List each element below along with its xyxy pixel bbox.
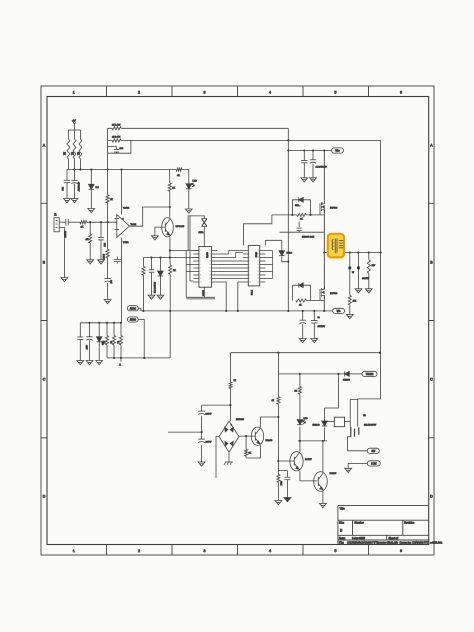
ground R9 bbox=[87, 260, 94, 264]
IC U2 left pins bbox=[193, 251, 199, 283]
diode D6 snubber lower bbox=[292, 285, 310, 300]
wire R19 drop bbox=[368, 253, 370, 289]
wire Q5 base bbox=[278, 460, 294, 462]
svg-text:Date:: Date: bbox=[339, 536, 345, 540]
capacitor C10 bbox=[301, 160, 307, 162]
op-amp U1 bbox=[115, 215, 130, 238]
svg-text:COM: COM bbox=[371, 464, 376, 466]
resistor R22 1K bbox=[298, 387, 301, 395]
wire collector column bbox=[169, 170, 171, 218]
ground LED1 bbox=[185, 209, 192, 213]
diode LED3 bbox=[297, 420, 303, 425]
sheet outer border frame bbox=[41, 86, 434, 555]
capacitor C12 bbox=[297, 228, 302, 230]
wire U2-U3 jog upper bbox=[217, 251, 243, 258]
wire Q5 collector bbox=[299, 441, 301, 452]
junction VB-Q2 bbox=[323, 149, 325, 151]
resistor R12 bbox=[142, 267, 145, 276]
ground LED2 bbox=[96, 361, 103, 365]
wire U3 hat bbox=[244, 215, 272, 246]
resistor R3 2K bbox=[79, 139, 82, 159]
junction rail-opamp bbox=[120, 168, 122, 170]
svg-text:9: 9 bbox=[200, 278, 201, 280]
diode D3 4007 bbox=[86, 337, 92, 340]
svg-text:a-b15.Sch: a-b15.Sch bbox=[430, 541, 443, 545]
resistor R21 4K bbox=[277, 397, 280, 405]
svg-text:18: 18 bbox=[257, 257, 259, 259]
resistor R25 body bbox=[277, 475, 280, 483]
wire U2-U3 links bbox=[217, 261, 243, 279]
svg-text:1: 1 bbox=[322, 203, 323, 205]
transistor Q2 IRF730 symbol bbox=[320, 201, 325, 213]
svg-text:Drawn by: CHARGE-777: Drawn by: CHARGE-777 bbox=[400, 541, 430, 545]
wire zener branch bbox=[325, 374, 339, 441]
svg-text:15: 15 bbox=[257, 268, 259, 270]
diode LED2 bbox=[96, 337, 102, 342]
wire C10 drop bbox=[303, 151, 305, 178]
transistor Q3 IRF730 symbol bbox=[320, 286, 325, 298]
junction W1-W2col bbox=[277, 352, 279, 354]
wire Q2 gate stub bbox=[319, 210, 321, 215]
capacitor C8 bbox=[149, 270, 155, 272]
wire relay left pin bbox=[325, 421, 335, 423]
border column tick marks bbox=[107, 86, 369, 555]
junction rail-fb bbox=[107, 168, 109, 170]
svg-text:8: 8 bbox=[200, 275, 201, 277]
svg-text:2K: 2K bbox=[71, 152, 74, 155]
diode D6 body bbox=[299, 283, 303, 288]
svg-text:6: 6 bbox=[200, 268, 201, 270]
svg-text:2: 2 bbox=[138, 90, 140, 94]
junction rail-zener bbox=[90, 168, 92, 170]
wire R10 bias column bbox=[107, 222, 109, 299]
svg-text:13: 13 bbox=[257, 275, 259, 277]
diode D9 zener bbox=[322, 421, 328, 426]
wire Q4 collector bbox=[261, 417, 279, 427]
wire bus drop x226 bbox=[217, 282, 226, 311]
ground C1 bbox=[64, 199, 71, 203]
capacitor C16 bbox=[278, 471, 287, 498]
wire W0 bottom row bbox=[144, 310, 333, 312]
resistor R18 47K bbox=[348, 296, 351, 305]
svg-text:2W005G: 2W005G bbox=[236, 419, 244, 421]
wire resistor bottoms row bbox=[107, 357, 170, 359]
svg-text:CD4B: CD4B bbox=[255, 252, 257, 258]
ground D2 bbox=[157, 295, 164, 299]
svg-text:1N4...: 1N4... bbox=[295, 205, 301, 207]
svg-text:6: 6 bbox=[400, 90, 402, 94]
svg-text:4700/25V: 4700/25V bbox=[77, 182, 79, 192]
ground C16 filled bbox=[284, 498, 291, 502]
connector J1 audio input bbox=[54, 214, 59, 232]
wire R22 LED column bbox=[299, 374, 301, 441]
wire R18 drop bbox=[349, 253, 351, 315]
wire C13 drop bbox=[302, 311, 304, 339]
wire C11 drop bbox=[312, 151, 314, 178]
svg-text:RELAY-SPDT: RELAY-SPDT bbox=[364, 424, 377, 427]
junction input-C5 bbox=[100, 221, 102, 223]
svg-text:19: 19 bbox=[209, 254, 211, 256]
junction HV-fb bbox=[287, 139, 289, 141]
junction input-R10 bbox=[107, 221, 109, 223]
svg-text:220PF: 220PF bbox=[206, 414, 213, 416]
node A stub bbox=[120, 358, 122, 362]
crystal X1 bbox=[202, 219, 208, 227]
svg-text:BC547: BC547 bbox=[305, 459, 312, 461]
svg-text:16: 16 bbox=[257, 264, 259, 266]
ground Q6 bbox=[320, 503, 327, 507]
svg-text:2: 2 bbox=[249, 254, 250, 256]
junction RC-C8 bbox=[150, 256, 152, 258]
diode D5 body bbox=[299, 197, 303, 202]
resistor R7 1K bbox=[168, 183, 171, 191]
IC U2 bbox=[199, 247, 212, 288]
transistor Q5 ellipse bbox=[290, 452, 303, 471]
svg-text:File:: File: bbox=[339, 540, 344, 544]
bridge rectifier BR1 bbox=[219, 421, 239, 452]
wire bridge left bbox=[216, 437, 219, 478]
svg-text:5: 5 bbox=[249, 264, 250, 266]
wire R13 stubs bbox=[106, 323, 108, 358]
svg-text:REL3: REL3 bbox=[287, 253, 293, 255]
svg-text:W: W bbox=[352, 272, 354, 274]
svg-text:4: 4 bbox=[200, 261, 201, 263]
resistor R2 2K bbox=[73, 139, 76, 159]
resistor R23 body bbox=[245, 449, 248, 456]
svg-text:17: 17 bbox=[209, 261, 211, 263]
power net +V symbol bbox=[72, 119, 76, 131]
ground J1 bbox=[61, 278, 68, 282]
wire bridge bottom bbox=[228, 452, 230, 462]
ground R18 bbox=[346, 315, 353, 319]
wire Q5 emitter to Q6 base bbox=[300, 471, 318, 481]
wire U2 bottom stub bbox=[203, 287, 205, 297]
net label DC12V bbox=[362, 371, 377, 376]
border row letters bbox=[43, 144, 434, 499]
svg-text:5: 5 bbox=[335, 549, 337, 553]
svg-text:C: C bbox=[430, 378, 433, 382]
transformer T1 highlight bbox=[328, 234, 344, 258]
sheet inner border frame bbox=[47, 97, 429, 545]
LED3 arrows bbox=[302, 420, 306, 424]
junction VB-C11 bbox=[312, 149, 314, 151]
wire U2 left bus1 bbox=[190, 216, 193, 281]
net label AUDIO2 bbox=[127, 317, 138, 322]
svg-text:20: 20 bbox=[209, 250, 211, 252]
svg-text:C:\USERS\CHARGE-777\lnverter-1: C:\USERS\CHARGE-777\lnverter-15v2.ddb bbox=[347, 541, 399, 545]
transistor Q3 MOSFET lower bbox=[323, 253, 325, 311]
resistor R14 bbox=[112, 336, 115, 345]
capacitor C16 bbox=[284, 477, 290, 479]
title block bbox=[338, 506, 443, 545]
junction rail-fbcol bbox=[380, 251, 382, 253]
junction emitter-W0 bbox=[169, 310, 171, 312]
svg-text:6: 6 bbox=[249, 268, 250, 270]
ground R25 bbox=[275, 501, 282, 505]
ground D3 bbox=[86, 361, 93, 365]
junction collector-opamp out bbox=[169, 206, 171, 208]
net label AUDIO1 bbox=[127, 306, 138, 311]
capacitor C18 220PF bbox=[198, 439, 205, 442]
svg-text:14: 14 bbox=[209, 271, 211, 273]
svg-text:BD140: BD140 bbox=[266, 440, 273, 442]
wire J1 pin1 bbox=[59, 221, 66, 223]
wire W3 row bbox=[298, 440, 327, 442]
svg-text:9: 9 bbox=[249, 278, 250, 280]
capacitor C1 104 bbox=[64, 180, 70, 182]
diode D7 body bbox=[345, 371, 350, 376]
wire Q2 source to transformer rail bbox=[324, 252, 380, 254]
wire contact to SW bubble bbox=[348, 437, 368, 451]
wire fb top long bbox=[108, 127, 289, 129]
wire left block top bbox=[80, 322, 121, 324]
wire opamp V- pin column bbox=[121, 238, 123, 323]
svg-text:120K: 120K bbox=[102, 254, 104, 260]
IC U3 bbox=[248, 245, 259, 286]
svg-text:2K2A: 2K2A bbox=[199, 231, 205, 234]
junction bridge-cap bbox=[229, 404, 231, 406]
resistor R10 120K bbox=[106, 249, 109, 257]
svg-text:AUD1: AUD1 bbox=[130, 307, 137, 310]
junction rail-R2 bbox=[73, 168, 75, 170]
svg-text:4: 4 bbox=[269, 549, 271, 553]
wire Q3 gate stub bbox=[319, 296, 321, 301]
svg-text:1: 1 bbox=[249, 250, 250, 252]
svg-text:D: D bbox=[430, 495, 433, 499]
svg-text:TL062: TL062 bbox=[131, 224, 138, 226]
wire D2 drop bbox=[159, 258, 161, 296]
ground C15 bbox=[355, 289, 362, 293]
wire opamp V+ pin bbox=[121, 170, 123, 215]
resistor R24 bias upper bbox=[107, 170, 109, 223]
relay RL1 bbox=[334, 417, 344, 427]
svg-text:IRF730: IRF730 bbox=[330, 293, 338, 295]
svg-text:Sheet of: Sheet of bbox=[389, 536, 399, 540]
resistor R23 8K bbox=[245, 436, 247, 458]
net label SW bbox=[367, 448, 379, 453]
capacitor C3 plates bbox=[114, 150, 119, 152]
chassis ground bridge bbox=[224, 462, 233, 465]
ground C2 bbox=[71, 199, 78, 203]
wire opamp out bbox=[129, 207, 169, 226]
resistor R11 1K bbox=[169, 265, 172, 274]
svg-text:9-Apr-2010: 9-Apr-2010 bbox=[352, 536, 366, 540]
wire +V top bar bbox=[69, 129, 81, 131]
wire LED branch bbox=[188, 170, 190, 210]
wire C5 drop bbox=[100, 222, 102, 260]
svg-text:16: 16 bbox=[209, 264, 211, 266]
svg-text:10: 10 bbox=[249, 282, 251, 284]
svg-text:3: 3 bbox=[249, 257, 250, 259]
border row tick marks bbox=[41, 203, 434, 437]
wire Q6 collector bbox=[322, 441, 324, 472]
wire R9 drop bbox=[89, 222, 91, 260]
ground C10 bbox=[301, 178, 308, 182]
capacitor C2 4700uF/25V bbox=[71, 180, 77, 183]
IC U3 left pins bbox=[243, 251, 249, 283]
net label VB+ bbox=[332, 148, 344, 153]
junction R21-Q4col bbox=[277, 416, 279, 418]
resistor R1 2K bbox=[67, 139, 70, 159]
svg-text:VB+: VB+ bbox=[335, 151, 340, 153]
wire cap C2 drop bbox=[74, 170, 76, 199]
svg-text:8: 8 bbox=[249, 275, 250, 277]
relay contact bars bbox=[351, 427, 359, 437]
svg-text:VB-: VB- bbox=[337, 311, 341, 313]
svg-text:1: 1 bbox=[73, 549, 75, 553]
ground C6 bbox=[104, 300, 111, 304]
diode D4 REL3 bbox=[282, 240, 289, 261]
wire snubber row lower bbox=[306, 300, 324, 302]
wire W2 row bbox=[278, 353, 344, 374]
capacitor C13 470/16V bbox=[300, 320, 306, 323]
svg-text:LED: LED bbox=[193, 181, 198, 183]
capacitor C9 bbox=[77, 337, 83, 339]
diode D5 snubber upper bbox=[292, 200, 310, 215]
transistor Q2 MOSFET upper bbox=[323, 151, 325, 253]
diode D2 1N4007 bbox=[158, 271, 164, 276]
capacitor C11 4.7uF/400V bbox=[310, 160, 316, 163]
resistor R17 4K bbox=[296, 299, 307, 302]
junction caps mid bbox=[201, 431, 203, 433]
wire Q4 base from bridge bbox=[239, 435, 255, 437]
wire pin row1 left extension bbox=[170, 250, 199, 252]
svg-text:1N4148: 1N4148 bbox=[313, 425, 321, 427]
wire R21 column bbox=[277, 374, 279, 501]
svg-text:3: 3 bbox=[204, 90, 206, 94]
diode D1 zener 5.6V bbox=[89, 184, 95, 189]
wire series cap C12 bbox=[280, 222, 325, 233]
junction row1-col bbox=[169, 249, 171, 251]
LED1 arrows bbox=[191, 183, 195, 187]
svg-text:Revision: Revision bbox=[404, 520, 415, 524]
svg-text:V-8V2: V-8V2 bbox=[123, 242, 129, 244]
svg-text:1u: 1u bbox=[318, 317, 320, 319]
svg-text:4.7uF/400V: 4.7uF/400V bbox=[316, 167, 328, 169]
wire VCC rail bbox=[67, 169, 170, 171]
ground C8 bbox=[148, 295, 155, 299]
svg-text:4: 4 bbox=[269, 90, 271, 94]
resistor R4 2K LOW bbox=[112, 127, 121, 130]
wire D7 to bubble bbox=[349, 373, 362, 375]
svg-text:820/2W: 820/2W bbox=[362, 278, 369, 280]
wire Q4 emitter bbox=[246, 445, 260, 458]
svg-text:12: 12 bbox=[257, 278, 259, 280]
wire X1 top loop bbox=[188, 216, 204, 251]
wire fb cap loop bbox=[108, 140, 131, 153]
svg-text:1: 1 bbox=[73, 90, 75, 94]
junction row-bubble2 bbox=[143, 357, 145, 359]
wire snubber row upper bbox=[272, 214, 324, 216]
ground C11 bbox=[310, 178, 317, 182]
svg-text:BD139: BD139 bbox=[330, 473, 337, 475]
resistor R16 4K bbox=[297, 213, 306, 216]
capacitor C4 220PF series bbox=[66, 219, 68, 225]
wire COM bubble to ground bbox=[348, 463, 367, 468]
wire C9 drop bbox=[79, 323, 81, 361]
svg-text:LED: LED bbox=[304, 418, 308, 420]
wire feedback column right bbox=[358, 140, 381, 399]
svg-text:Size: Size bbox=[339, 520, 345, 524]
wire input to opamp bbox=[87, 221, 117, 223]
svg-text:1N4007 464Z: 1N4007 464Z bbox=[302, 237, 315, 239]
svg-text:3: 3 bbox=[123, 219, 124, 221]
transistor Q1 MPSA05 bbox=[162, 218, 174, 237]
svg-text:15: 15 bbox=[209, 268, 211, 270]
wire R15 stubs bbox=[120, 323, 122, 358]
wire cap pair column bbox=[202, 405, 231, 462]
transistor Q6 ellipse bbox=[314, 472, 328, 492]
junction R21-Q5base bbox=[277, 460, 279, 462]
capacitor C5 bbox=[98, 238, 104, 240]
junction pad 2 bbox=[357, 267, 360, 270]
svg-text:13: 13 bbox=[209, 275, 211, 277]
transistor Q4 ellipse bbox=[251, 427, 263, 445]
wire caps mid tap bbox=[168, 431, 202, 433]
junction RC-col bbox=[169, 256, 171, 258]
IC U2 right pins bbox=[212, 251, 218, 283]
svg-text:Title: Title bbox=[340, 507, 346, 511]
ground COM bbox=[345, 468, 352, 472]
junction HV-VB bbox=[287, 149, 289, 151]
resistor R24 body bbox=[106, 195, 109, 203]
wire bubble1 stub bbox=[138, 308, 143, 311]
wire fb left vertical bbox=[107, 128, 109, 169]
diode D4 body bbox=[279, 251, 285, 256]
svg-text:MPSA05: MPSA05 bbox=[176, 225, 185, 228]
wire U2 left bus2 bbox=[186, 251, 215, 299]
capacitor C3 104 fb bbox=[116, 147, 118, 154]
svg-text:11: 11 bbox=[209, 282, 211, 284]
resistor R13 bbox=[105, 336, 108, 345]
wire Q1 base to ground bbox=[155, 227, 165, 236]
svg-text:D: D bbox=[43, 495, 46, 499]
svg-text:4: 4 bbox=[249, 261, 250, 263]
wire R1-R3 stubs bbox=[69, 130, 81, 170]
wire X1 bottom bbox=[203, 227, 205, 247]
wire relay right pin bbox=[345, 421, 351, 423]
resistor R8 4K bbox=[80, 221, 87, 224]
resistor R19 47K/4W bbox=[367, 260, 370, 273]
svg-text:470/16V: 470/16V bbox=[318, 326, 326, 328]
svg-text:10: 10 bbox=[200, 282, 202, 284]
junction R12-W0 bbox=[142, 310, 144, 312]
svg-text:220PF: 220PF bbox=[206, 442, 213, 444]
svg-text:7: 7 bbox=[249, 271, 250, 273]
junction RC-D2 bbox=[159, 256, 161, 258]
wire D3 drop bbox=[89, 323, 91, 361]
svg-text:11: 11 bbox=[257, 282, 259, 284]
svg-text:2K LOW: 2K LOW bbox=[112, 136, 121, 138]
wire emitter RC row bbox=[144, 257, 199, 259]
svg-text:14: 14 bbox=[257, 271, 259, 273]
svg-text:3: 3 bbox=[200, 257, 201, 259]
svg-text:C2051: C2051 bbox=[206, 252, 208, 259]
svg-text:/4W: /4W bbox=[372, 265, 376, 267]
wire R14 stubs bbox=[113, 323, 115, 358]
wire D4 top bbox=[265, 240, 281, 245]
ground C14 bbox=[311, 339, 318, 343]
ground C18 bbox=[198, 462, 205, 466]
svg-text:7: 7 bbox=[200, 271, 201, 273]
capacitor C17 220PF bbox=[198, 411, 205, 414]
wire C14 drop bbox=[313, 311, 315, 339]
svg-text:6: 6 bbox=[400, 549, 402, 553]
ground R19 bbox=[365, 289, 372, 293]
resistor R5 2K LOW bbox=[112, 139, 121, 142]
svg-text:AUD2: AUD2 bbox=[130, 319, 137, 322]
wire resistor R12 from bubble up bbox=[143, 258, 145, 311]
